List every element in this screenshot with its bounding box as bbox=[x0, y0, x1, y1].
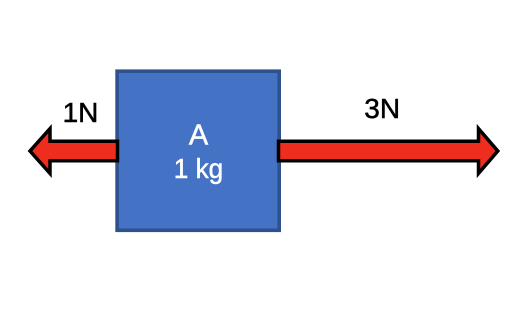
right force arrow (3N) bbox=[279, 129, 498, 174]
left force arrow (1N) bbox=[30, 129, 118, 174]
svg-text:3N: 3N bbox=[364, 93, 400, 124]
block A (mass box) bbox=[117, 71, 279, 230]
svg-text:1N: 1N bbox=[63, 97, 99, 128]
svg-text:1 kg: 1 kg bbox=[174, 153, 224, 184]
svg-text:A: A bbox=[189, 119, 209, 151]
